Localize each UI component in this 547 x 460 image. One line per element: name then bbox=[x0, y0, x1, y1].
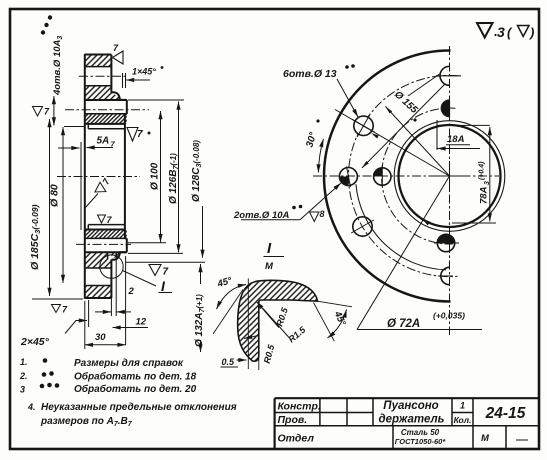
centerline hole axis upper flange bbox=[79, 75, 128, 77]
punch hole lower CL dark top half bbox=[437, 234, 454, 251]
roughness mark in bore lower bbox=[98, 215, 106, 223]
svg-text:Кол.: Кол. bbox=[454, 415, 472, 425]
R1.5 leader bbox=[263, 309, 289, 338]
right horizontal extension bbox=[318, 301, 353, 307]
svg-text:Обработать по дет. 18: Обработать по дет. 18 bbox=[74, 371, 197, 383]
main axis centerline bbox=[57, 176, 140, 178]
hatch flange band above hub bbox=[85, 86, 120, 100]
svg-text:(: ( bbox=[507, 25, 513, 40]
svg-text:Ø 132А7(+1): Ø 132А7(+1) bbox=[194, 294, 206, 347]
dimension D72A leader bbox=[357, 176, 450, 330]
svg-text:): ) bbox=[528, 25, 534, 40]
bolt hole bottom half bbox=[441, 267, 450, 284]
dimension D185 bbox=[32, 298, 83, 300]
central hole D72A bold circle bbox=[399, 125, 501, 227]
svg-text:Сталь 50: Сталь 50 bbox=[401, 428, 440, 437]
svg-text:30°: 30° bbox=[304, 130, 319, 149]
svg-text:Ø 155: Ø 155 bbox=[392, 89, 420, 116]
dimension D126B7 bbox=[178, 102, 180, 253]
svg-text:3: 3 bbox=[497, 24, 505, 40]
right 45 deg chamfer extension bbox=[314, 303, 335, 342]
svg-text:5А: 5А bbox=[97, 136, 110, 147]
svg-text:2.: 2. bbox=[19, 371, 28, 381]
hatch thin ring strip upper bbox=[85, 114, 127, 124]
svg-text:Неуказанные предельные отклоне: Неуказанные предельные отклонения bbox=[41, 402, 237, 413]
svg-text:24-15: 24-15 bbox=[485, 405, 526, 422]
dimension D100 bbox=[160, 111, 162, 242]
svg-text:Констр.: Констр. bbox=[278, 401, 321, 413]
svg-text:3: 3 bbox=[20, 385, 25, 395]
outer flange arc D185 bbox=[324, 50, 451, 301]
svg-text:2×45°: 2×45° bbox=[20, 336, 50, 348]
svg-text:7: 7 bbox=[62, 305, 68, 315]
big open triangle 7 near detail bbox=[149, 265, 161, 276]
roughness mark right of part big bbox=[127, 128, 138, 142]
roughness mark at hole centerline left bbox=[33, 107, 43, 117]
svg-text:8: 8 bbox=[320, 209, 325, 219]
svg-text:R0.5: R0.5 bbox=[262, 343, 277, 365]
bolt circle D155 dash-dot bbox=[349, 75, 458, 276]
svg-text:Ø 80: Ø 80 bbox=[49, 184, 61, 207]
svg-text:7: 7 bbox=[163, 267, 169, 278]
svg-text:1: 1 bbox=[460, 401, 465, 411]
svg-text:Пуансоно: Пуансоно bbox=[383, 400, 438, 412]
svg-text:30: 30 bbox=[95, 332, 106, 343]
svg-text:7: 7 bbox=[44, 107, 50, 117]
svg-text:12: 12 bbox=[136, 317, 147, 328]
svg-text:Ø 185С3(-0.09): Ø 185С3(-0.09) bbox=[29, 204, 42, 270]
dimension D155 diagonal bbox=[386, 107, 450, 177]
R0.5 upper leader bbox=[257, 302, 279, 328]
hatch thin ring strip lower bbox=[85, 230, 127, 239]
dimension D128C3 bbox=[202, 206, 204, 258]
svg-text:6отв.Ø 13: 6отв.Ø 13 bbox=[283, 68, 337, 80]
svg-text:(+0,035): (+0,035) bbox=[433, 311, 465, 321]
hatch flange top band bbox=[85, 55, 112, 67]
svg-text:М: М bbox=[481, 433, 490, 444]
bolt hole left on horizontal CL bbox=[339, 168, 357, 186]
svg-text:4отв.Ø 10А3: 4отв.Ø 10А3 bbox=[52, 36, 64, 96]
left 45 deg chamfer extension bbox=[213, 290, 243, 335]
dimension 30 deg arc bbox=[318, 139, 323, 173]
hatch flange bottom band bbox=[85, 286, 112, 299]
roughness mark bottom left of flange bbox=[52, 305, 61, 313]
circle D132 arc bbox=[356, 184, 446, 270]
svg-text:7: 7 bbox=[113, 43, 119, 53]
svg-text:78А: 78А bbox=[479, 186, 490, 204]
dimension 18A bracket bbox=[436, 120, 438, 150]
recess edge line on left face bbox=[80, 142, 82, 230]
svg-text:3: 3 bbox=[484, 181, 491, 185]
dimension D132A7 bbox=[200, 264, 202, 284]
svg-text:7: 7 bbox=[137, 129, 143, 140]
detail profile blob hatched bbox=[238, 280, 318, 361]
svg-text:Ø 128С3(-0.08): Ø 128С3(-0.08) bbox=[191, 140, 203, 202]
svg-text:Обработать по дет. 20: Обработать по дет. 20 bbox=[74, 383, 197, 395]
roughness mark triangle 8 on leader bbox=[310, 212, 320, 222]
horizontal centerline bbox=[313, 175, 499, 177]
svg-text:ГОСТ1050-60*: ГОСТ1050-60* bbox=[395, 437, 447, 446]
inner vertical extension below blob bbox=[258, 355, 260, 370]
vertical centerline bbox=[449, 46, 451, 335]
part outline left view bbox=[85, 54, 127, 299]
part inner edges left view bbox=[85, 67, 127, 286]
punch hole near top CL dark bbox=[441, 100, 449, 117]
R0.5 lower leader bbox=[244, 336, 259, 339]
dimension 78A3 vertical bbox=[489, 127, 491, 222]
svg-text:I: I bbox=[267, 240, 272, 257]
svg-text:0.5: 0.5 bbox=[222, 357, 236, 367]
dimension D80 bbox=[62, 127, 64, 283]
svg-text:1×45°: 1×45° bbox=[132, 67, 156, 77]
centerline hole axis upper inner bbox=[65, 109, 149, 111]
svg-text:7: 7 bbox=[107, 215, 113, 225]
svg-text:Пров.: Пров. bbox=[278, 414, 308, 426]
svg-text:4.: 4. bbox=[27, 402, 36, 412]
surface finish general mark top right bbox=[477, 23, 529, 38]
svg-text:1.: 1. bbox=[20, 357, 28, 367]
svg-text:18А: 18А bbox=[447, 134, 465, 145]
svg-text:размеров по А7.В7: размеров по А7.В7 bbox=[40, 416, 133, 428]
vertical extension line through detail bbox=[247, 279, 249, 370]
hatch flange band below hub with groove bbox=[85, 252, 112, 268]
roughness mark in bore upper bbox=[95, 176, 112, 197]
svg-text:держатель: держатель bbox=[379, 414, 445, 426]
bolt hole lower left with tick bbox=[353, 217, 372, 236]
punch hole left on horizontal CL bbox=[374, 168, 391, 185]
right 45 deg arc bbox=[328, 310, 347, 339]
leader to detail label I bbox=[123, 271, 157, 287]
svg-text:Ø 72А: Ø 72А bbox=[387, 318, 420, 330]
svg-text:Отдел: Отдел bbox=[278, 433, 315, 445]
chamfer circle of central hole bbox=[394, 121, 505, 232]
svg-text:Ø 100: Ø 100 bbox=[150, 162, 161, 190]
punch hole circle dash-dot r68 bbox=[382, 108, 456, 244]
svg-text:2: 2 bbox=[128, 286, 135, 297]
roughness mark at flange top corner bbox=[113, 51, 124, 64]
svg-text:45°: 45° bbox=[215, 275, 233, 290]
bolt hole top half bbox=[440, 66, 450, 85]
dimension 4 holes label dots bbox=[41, 15, 52, 34]
centerline hole axis lower long bbox=[76, 243, 131, 245]
center crosshair bbox=[434, 161, 465, 191]
svg-text:I: I bbox=[161, 278, 166, 294]
bolt hole upper left with cross ticks bbox=[354, 116, 373, 135]
radial line to upper-left hole bbox=[335, 110, 450, 177]
svg-text:7: 7 bbox=[101, 176, 113, 186]
svg-text:Размеры для справок: Размеры для справок bbox=[74, 358, 184, 369]
svg-text:М: М bbox=[265, 261, 274, 272]
detail circle I bbox=[100, 255, 123, 278]
svg-text:R1.5: R1.5 bbox=[286, 324, 308, 345]
left 45 deg arc bbox=[217, 285, 247, 310]
svg-text:(+0.4): (+0.4) bbox=[479, 161, 486, 180]
svg-text:45°: 45° bbox=[331, 309, 347, 328]
